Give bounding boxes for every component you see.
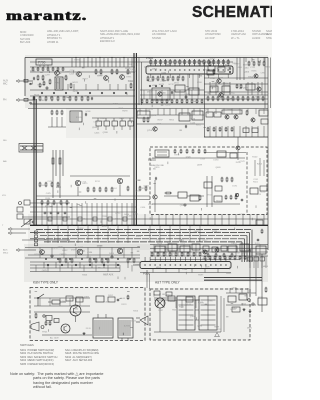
block top right pocket 2 [218,67,225,72]
regulator block right edge [258,298,267,305]
svg-text:D320: D320 [186,156,192,158]
tone amp resistor bank [147,77,149,80]
wire bank B1 drops [97,126,99,130]
wire comb bottom rail [140,272,231,274]
resistor R801 [143,118,145,121]
resistor R725 [209,62,211,65]
scan haze top band [25,55,268,108]
resistor R719 [127,70,129,73]
bus dashed right vertical [246,152,248,215]
parts table column 5 [205,30,221,41]
wire rail y72 [30,71,135,73]
wire P600 top rail [152,157,245,159]
wire tone rails mid [140,89,204,91]
block input sw2 [24,219,30,224]
marantz logo wordmark [6,8,87,24]
transistor H805 [234,115,238,119]
resistor R715 [111,70,113,73]
transistor H709 [158,92,162,96]
wire mid vertical x204 [204,62,206,137]
resistor R702 [43,82,45,85]
capacitor C705 [91,97,93,99]
selector switch S101 [20,145,43,147]
wire right vertical x265 [264,58,266,109]
resistor R909 [127,296,129,299]
wire K&N internal rails [34,305,90,307]
svg-text:D280: D280 [213,160,219,162]
resistor R151 [52,158,54,164]
svg-text:C410: C410 [140,207,146,209]
bus row 6 [44,241,242,243]
capacitor C700 series [24,79,28,82]
transistor H307 [203,250,207,254]
block right mid 2 [215,186,222,191]
voltage selector ladder 2 [199,296,217,330]
svg-text:R624: R624 [258,297,264,299]
value label speckle K&N box [35,291,133,335]
wire K&N rail y298 [34,297,90,299]
svg-text:H240: H240 [260,191,266,193]
wire F rails 3 [150,259,240,261]
muting block [137,111,150,118]
wire rail y96 left [30,95,135,97]
resistor R700 [39,84,41,87]
block right mid 4 [260,186,267,191]
power transistor H903 circle [61,324,70,333]
block P600 top right [217,151,226,157]
transistor H701 [55,71,60,76]
svg-text:C948: C948 [200,159,206,161]
ground symbol K&N [83,332,85,333]
safety triangle mark [215,333,220,337]
capacitor C701 [33,77,35,79]
block A&T top left [154,291,160,295]
wire drops band A left lower [67,84,69,90]
svg-text:C526: C526 [47,181,53,183]
wire ladder rail [48,126,66,128]
wire tape feeds [13,228,30,230]
speaker horn K&N [31,322,39,331]
svg-text:VOL: VOL [2,195,7,197]
block right B2 [214,112,221,117]
wire right edge vertical rail [267,58,269,251]
shield box P600 dashed outline [150,147,267,215]
block B far right [222,110,242,114]
capacitor row tone [149,85,151,87]
wire H901 leads [75,298,77,305]
resistor bank lower phono [33,97,35,100]
resistor R601 [166,192,171,194]
svg-text:C241: C241 [253,179,259,181]
wire mid rails [36,195,150,197]
resistor R153 [59,158,61,164]
bus main dark horizontal [30,224,268,226]
value label speckle band F [42,246,269,280]
transistor H809 [236,146,240,150]
wire band F vertical drops 2 [39,248,41,259]
wire band B rail 124 [136,123,204,125]
transistor H801 [153,127,157,131]
block lower right extra [232,307,240,312]
input jack PHONO L [16,99,19,102]
svg-text:D900: D900 [148,204,154,206]
svg-text:R224: R224 [257,163,263,165]
block right mid 1 [204,182,212,188]
wire right vertical x270 [269,58,271,109]
capacitor pocket right [229,71,231,73]
power transformer T902 motor circle [155,298,165,308]
transistor H711 [217,79,221,83]
input jack AUX rear [16,249,19,252]
capacitor right of corner [257,239,259,241]
block A&T top left 2 [166,292,172,296]
volume pot lines [52,176,54,198]
transistor H715 [254,74,258,78]
wire left feeder vertical [24,58,26,97]
svg-text:R219: R219 [45,206,51,208]
block row F far right [248,257,253,261]
wire band F rails [25,247,140,249]
transistor H705 [104,76,109,81]
wire A&T verticals right of ladders [220,296,222,332]
resistor R907 [49,322,51,325]
resistor R711 [95,70,97,73]
parts table column 2 [47,30,79,44]
wire P600 right verticals [254,160,256,176]
wire input lower rail [22,239,70,241]
wire rail y78 right [204,77,268,79]
wire band B verticals [139,109,141,116]
svg-text:D165: D165 [40,185,46,187]
IC block tone 3 [189,88,199,95]
svg-text:R501: R501 [253,182,259,184]
capacitor C903 [248,299,251,302]
wire right lower verticals [229,288,231,293]
parts table column 6 [231,30,246,41]
power transformer T901 winding left [93,318,113,338]
ground symbol right [249,310,251,311]
wire band F lower rails [30,267,120,269]
wire input rails [30,206,136,208]
wire right mid drops [209,82,211,95]
resistor bank F right2 [204,257,206,259]
transistor H601 [153,195,157,199]
value label speckle A&T box [154,294,253,329]
capacitor C905 [117,299,119,301]
connector P500 bottom comb [140,262,231,269]
rectifier block D902 [239,294,247,300]
bus down ticks right [149,225,151,242]
capacitor bank input [44,212,46,214]
capacitor C301 [51,255,53,257]
resistor bank B right [207,128,209,131]
resistor bank mid3 [127,187,129,190]
wire P600 top rail 2 [204,152,246,154]
capacitor row band F [47,264,49,266]
resistor bank input [41,201,43,204]
svg-text:R859: R859 [155,167,161,169]
svg-text:P600: P600 [148,158,156,162]
wire A&T rail y300 [154,299,200,301]
block F far right [256,246,266,254]
transistor H303 [77,249,83,255]
node dots band A [75,57,76,58]
fuse F901 [52,300,60,304]
resistor R803 [147,118,149,121]
ground symbol lower right [243,308,245,309]
wire right verticals drop [236,58,238,81]
switch arm diagonal [21,219,32,227]
svg-text:R880: R880 [56,187,62,189]
block A&T aux 2 [186,297,193,302]
wire rail y176 left partial [70,175,130,177]
wire rail y108 full [28,108,268,110]
block P600 inner 2 [190,195,199,201]
bus row 5 [30,238,245,240]
wire rail y219 [30,218,268,220]
resistor R709 [70,84,72,87]
svg-text:Q699: Q699 [197,165,203,167]
block row B right low [243,128,249,133]
transistor H807 [251,118,255,122]
wire right stub drops [245,58,247,63]
wire far right vertical [261,254,263,312]
capacitor C711 [229,67,231,69]
wire aux feed [21,249,36,251]
resistor R603 [199,196,201,199]
value label speckle band A mid [144,61,209,107]
block P600 top right 2 [230,153,237,158]
svg-text:R978: R978 [174,155,180,157]
resistor bank mid1 [39,183,41,186]
capacitor C801 [85,113,87,115]
resistor R727 [213,70,215,73]
value label speckle right lower [205,287,264,305]
capacitor row band F y259 [45,258,46,259]
resistor row above comb [207,254,209,256]
capacitor C601 [155,177,157,179]
block right amp 1 [210,86,218,92]
resistor R713 [100,70,102,73]
wire interbox link vertical [146,270,148,288]
svg-text:MIC: MIC [3,83,8,86]
wire band F stubs y265 [35,265,37,272]
wire F right verticals 2 [249,256,251,268]
wire P600 inner rails [152,203,240,205]
block P600 inner 3 [214,196,222,202]
capacitor C704 [30,83,32,85]
svg-text:AUX: AUX [3,249,8,252]
svg-text:R340: R340 [208,195,214,197]
parts table column 3 [100,30,140,44]
wire right column verticals [249,252,251,296]
wire H601 leads [154,180,156,194]
title SCHEMATIC [192,4,286,22]
block K&N driver 2 [54,319,59,323]
capacitor C803 [185,125,187,127]
block K&N relay [96,296,104,302]
resistor bank F right [151,253,153,256]
diode D713 [240,85,242,88]
svg-text:R530: R530 [45,198,51,200]
wire input rail y217 [22,216,70,218]
block K&N aux 1 [66,296,73,301]
resistor bank right y96 [207,97,209,100]
voltage selector ladder 1 [177,296,195,330]
resistor bank right top [248,62,250,65]
wire rail y92 right [204,91,268,93]
wire A&T stubs [157,300,159,308]
svg-text:SEL: SEL [3,140,8,142]
block right of corner [256,220,263,225]
transistor H811 [235,193,238,196]
pilot lamp small circle [41,326,44,329]
transistor H713 [219,93,223,97]
block top right pocket 1 [208,66,215,71]
legend header SWITCHES [20,344,34,348]
resistor right of corner [261,230,263,233]
capacitor C709 [185,96,187,98]
wire drops into rail137 [209,126,211,137]
capacitor C707 [171,91,173,93]
value label speckle mid left [45,180,154,209]
value label speckle band A right [207,59,270,102]
transistor H717 [257,87,261,91]
parts table column 8 [266,30,277,41]
relay block K801 [70,111,82,122]
svg-text:PH: PH [3,99,7,102]
wire rail y84 right [204,83,268,85]
transistor H203 [117,178,122,183]
transistor H301 [40,250,45,255]
power transistor H901 TO3 circle [70,305,81,316]
resistor R901 [35,314,37,317]
power amp cluster blocks [155,246,165,252]
diode D711 [236,85,238,88]
svg-text:MIC2: MIC2 [3,253,9,255]
capacitor C706 [30,102,32,104]
svg-text:Q469: Q469 [216,167,222,169]
resistor R703 [42,76,44,79]
input jack AUX L [16,80,19,83]
shield can block [55,77,63,90]
block A&T aux 1 [168,296,175,301]
resistor block bank B1 [96,121,102,126]
wire band B right rail 137 [204,136,268,138]
block input sw1 [24,200,30,205]
rectifier block D901 [228,296,236,302]
transistor H305 [117,248,122,253]
switch S901 power [38,294,44,298]
parts table column 4 [152,30,177,41]
resistor R717 [116,70,118,73]
wire comb stub left [133,264,140,266]
resistor R705 [49,80,51,83]
wire A&T rails [154,297,177,299]
wire tone mid verticals [143,90,145,99]
wire input feeds [21,80,33,82]
scan haze bus band [28,214,268,250]
capacitor C703 [46,87,48,89]
svg-text:C425: C425 [46,193,52,195]
value label speckle band B [79,110,206,134]
bus junction dots [41,225,42,226]
capacitor C303 [111,256,113,258]
wire tone verticals [187,74,189,90]
IC block tone 2 [175,85,185,92]
resistor R721 [130,84,132,87]
capacitor C603 [184,204,186,206]
resistor bank tone y100 [141,100,143,102]
wire main top rail [25,57,268,59]
resistor ladder left [51,111,53,114]
capacitor bank y91 [41,92,43,94]
resistor bank P600 [225,196,227,199]
wire drops band A left [71,58,73,67]
wire band F vertical drops [43,262,45,268]
svg-text:BAL: BAL [3,160,8,163]
wire input rail y203 [30,202,70,204]
bus row 3 [30,232,250,234]
transistor H201 [75,180,80,185]
block row above comb [203,246,209,251]
wire right lower rails [226,292,256,294]
wire P700 stubs [39,65,41,67]
wire K&N stubs [39,298,41,306]
wire rail y104 full [30,103,268,105]
wire band F rail y265 [30,264,120,266]
parts table column 7 [252,30,269,41]
note on safety paragraph [10,372,120,390]
bus center dark vertical pair [133,53,135,225]
wire rail y90 left [30,89,135,91]
svg-text:R231: R231 [95,181,101,183]
parts table column 1 [20,31,33,45]
component cluster upper left [17,207,23,212]
svg-text:T: T [2,225,4,227]
wire rail y115 mid [136,114,204,116]
wire H809 leads [237,137,239,145]
svg-text:D785: D785 [236,162,242,164]
connector P700 label box [36,59,52,65]
capacitor C205 [32,221,34,223]
svg-text:H728: H728 [256,194,262,196]
value label speckle P600 area [153,153,262,211]
block B right 2 [192,111,203,120]
block right B1 [206,112,213,117]
svg-text:H615: H615 [82,183,88,185]
bus vertical taps right [144,214,146,225]
wire selector feed [33,140,35,144]
wire drops rail108 to 114 right [207,109,209,115]
wire F rails 2 [150,248,268,250]
bus row 4 [40,235,247,237]
wire rail y67 [30,66,135,68]
right cluster rects [246,84,255,90]
block right amp 2 [222,86,230,92]
bus row 2 [36,229,252,231]
wire F right rails [150,244,268,246]
svg-text:H934: H934 [216,200,222,202]
headphone jack block [155,150,169,157]
value label speckle bus band [44,214,252,246]
wire A&T ladder links [195,299,199,301]
resistor bank mid2 [87,188,89,191]
capacitor C901 [43,315,45,317]
block P600 inner 1 [178,192,187,198]
resistor R903 [265,288,267,291]
resistor bank F [59,259,61,262]
